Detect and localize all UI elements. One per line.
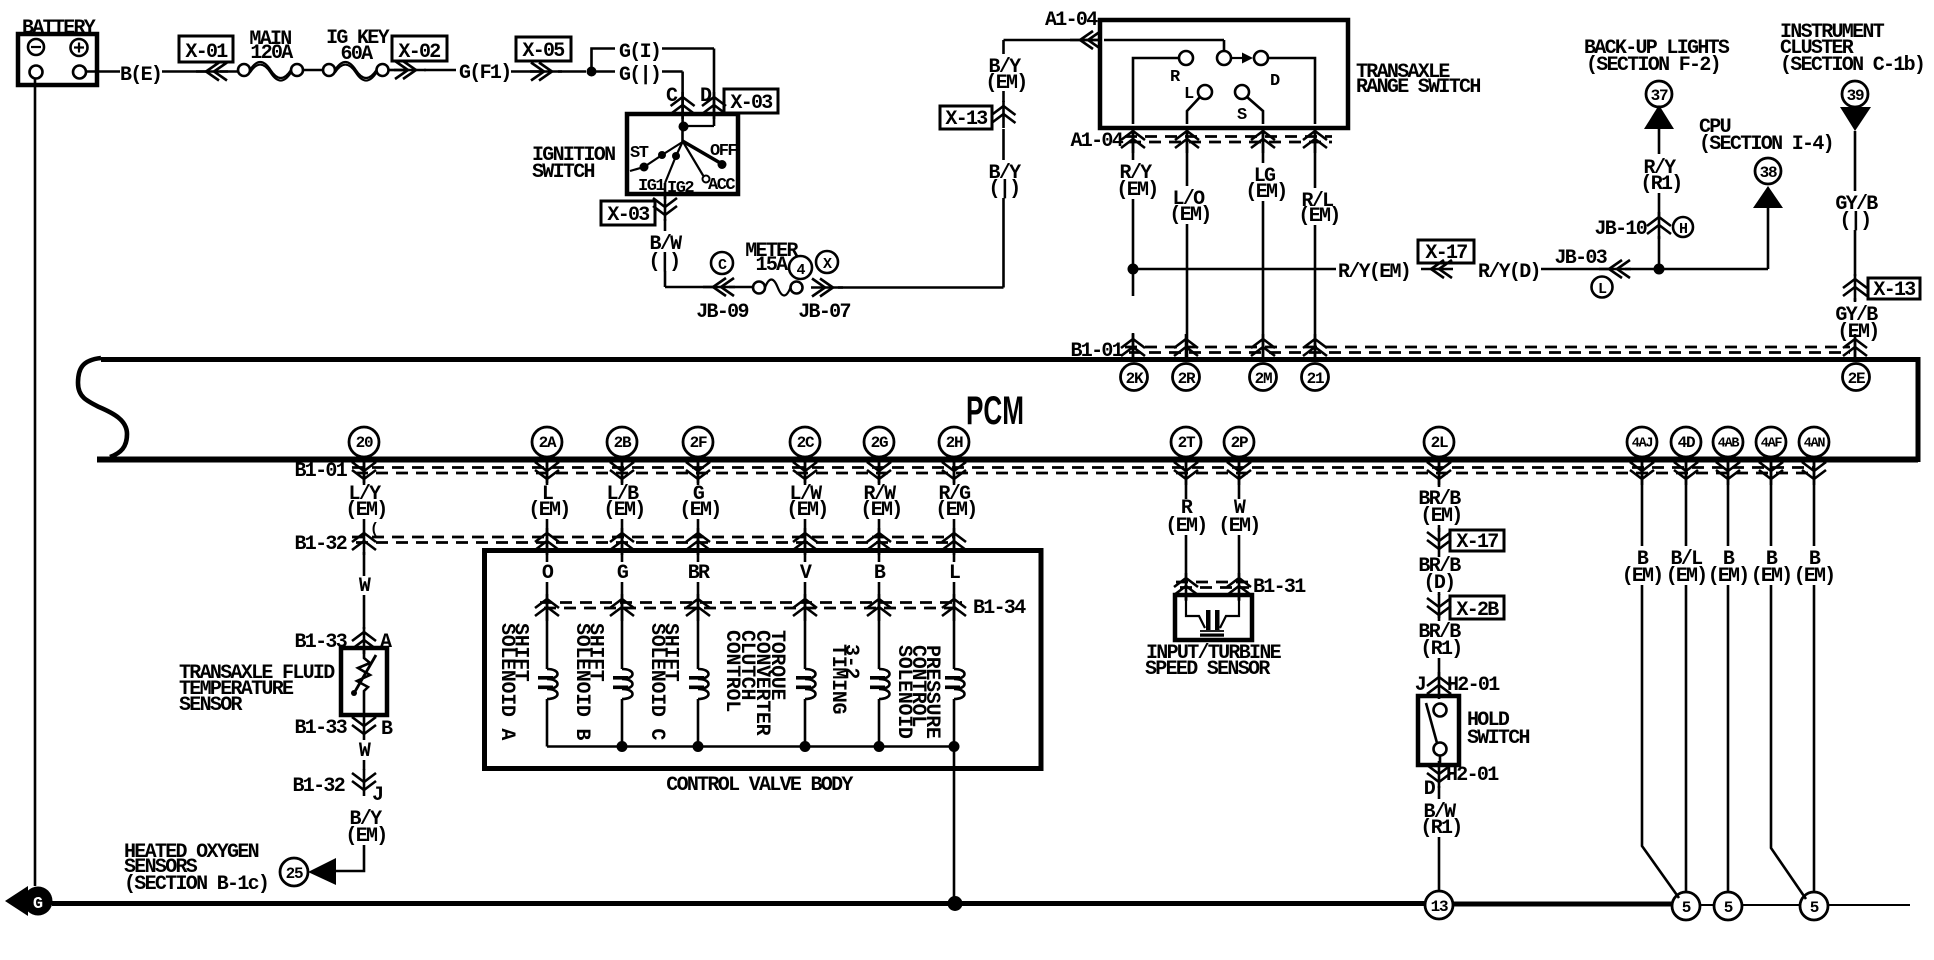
svg-text:(EM): (EM) [1420, 505, 1461, 528]
pcm terminal 2L [1424, 427, 1454, 457]
svg-text:(EM): (EM) [1245, 181, 1286, 204]
svg-text:(EM): (EM) [1708, 565, 1748, 588]
svg-text:X-01: X-01 [185, 41, 228, 64]
svg-text:4AF: 4AF [1761, 437, 1783, 452]
junction block JB-07 [816, 251, 838, 273]
svg-text:21: 21 [1307, 370, 1324, 388]
svg-text:X-03: X-03 [730, 92, 772, 115]
svg-text:(SECTION I-4): (SECTION I-4) [1699, 133, 1833, 156]
svg-text:38: 38 [1760, 164, 1777, 182]
svg-text:5: 5 [1810, 899, 1819, 917]
svg-text:(SECTION C-1b): (SECTION C-1b) [1780, 54, 1924, 77]
wire G(F1) [424, 69, 456, 72]
wire between fuses [303, 69, 323, 72]
svg-text:JB-03: JB-03 [1554, 247, 1606, 270]
svg-text:(EM): (EM) [1622, 565, 1662, 588]
svg-text:(|): (|) [989, 178, 1020, 201]
svg-text:(: ( [370, 521, 379, 538]
svg-text:R/Y(D): R/Y(D) [1478, 261, 1540, 284]
wire R/Y (R1) riser [1658, 129, 1661, 154]
connector X-17 lower [1438, 528, 1441, 555]
ignition switch wiper contacts [662, 142, 683, 155]
wire B (EM) ground 1 [1641, 483, 1644, 546]
junction block JB-09 [711, 252, 733, 274]
pcm terminal 2R [1173, 364, 1200, 391]
svg-text:A1-04: A1-04 [1070, 130, 1123, 153]
svg-text:(EM): (EM) [345, 499, 386, 522]
pcm terminal 2P [1224, 427, 1254, 457]
svg-text:B1-01: B1-01 [294, 460, 347, 483]
solenoid coil 4 [805, 669, 816, 699]
wire R/Y (EM) horizontal [1138, 268, 1336, 271]
svg-text:IG1: IG1 [638, 177, 665, 196]
control valve body [485, 551, 1042, 769]
svg-text:D: D [1424, 778, 1436, 801]
pcm terminal 4D [1671, 427, 1701, 457]
svg-text:L: L [1598, 281, 1607, 298]
svg-text:IG2: IG2 [667, 179, 694, 198]
svg-text:X-13: X-13 [945, 108, 987, 131]
wire G(I) upper [592, 49, 616, 69]
svg-text:W: W [359, 740, 371, 763]
pcm terminal 20 [349, 427, 379, 457]
svg-text:H: H [1679, 221, 1687, 238]
connector X-03 lower [601, 201, 655, 225]
pcm terminal 2E [1843, 364, 1870, 391]
connector X-2B [1438, 594, 1441, 621]
pcm terminal 4AB [1713, 427, 1743, 457]
solenoid coil 1 [547, 669, 558, 699]
svg-text:B: B [874, 562, 886, 585]
svg-text:(SECTION B-1c): (SECTION B-1c) [124, 873, 268, 896]
ground junction node [948, 896, 963, 911]
svg-text:(EM): (EM) [1116, 179, 1157, 202]
wire B (EM) ground 3 [1727, 483, 1730, 546]
pcm terminal 2K [1121, 364, 1148, 391]
wire G(I) lower [596, 70, 615, 73]
svg-text:SOLENOID: SOLENOID [892, 645, 915, 739]
svg-text:2M: 2M [1255, 370, 1272, 388]
svg-text:L: L [949, 562, 960, 585]
svg-text:(R1): (R1) [1640, 173, 1681, 196]
svg-text:RANGE SWITCH: RANGE SWITCH [1356, 76, 1480, 99]
svg-text:(EM): (EM) [1165, 515, 1206, 538]
svg-text:B1-34: B1-34 [973, 597, 1026, 620]
svg-text:D: D [1270, 72, 1280, 91]
svg-text:(EM): (EM) [1218, 515, 1259, 538]
solenoid coil 5 [879, 669, 890, 699]
ground wire runs [1642, 585, 1679, 898]
svg-text:W: W [359, 575, 371, 598]
svg-text:B1-32: B1-32 [294, 533, 346, 556]
wire L to ground [953, 747, 956, 900]
svg-text:B1-31: B1-31 [1253, 576, 1306, 599]
svg-text:S: S [1237, 106, 1247, 125]
svg-text:SOLENOID B: SOLENOID B [570, 623, 593, 740]
wire to transaxle range switch [1004, 39, 1101, 42]
svg-text:4D: 4D [1678, 434, 1695, 452]
svg-text:2C: 2C [797, 434, 815, 452]
range switch terminal wires [1133, 58, 1179, 124]
svg-text:13: 13 [1431, 898, 1448, 916]
svg-text:(EM): (EM) [786, 499, 827, 522]
svg-text:(EM): (EM) [1751, 565, 1791, 588]
svg-text:JB-09: JB-09 [696, 301, 748, 324]
svg-text:JB-07: JB-07 [798, 301, 850, 324]
svg-text:2K: 2K [1126, 370, 1144, 388]
svg-text:37: 37 [1651, 87, 1668, 105]
svg-text:B1-32: B1-32 [292, 775, 344, 798]
svg-text:39: 39 [1847, 87, 1864, 105]
svg-text:(|): (|) [649, 251, 680, 274]
svg-text:2H: 2H [946, 434, 963, 452]
wire LG (EM) [1262, 128, 1265, 163]
solenoid coil 3 [698, 669, 709, 699]
svg-text:CONTROL: CONTROL [720, 630, 743, 712]
svg-text:O: O [542, 562, 554, 585]
svg-text:(R1): (R1) [1420, 638, 1461, 661]
svg-text:G(|): G(|) [619, 64, 660, 87]
svg-text:G(I): G(I) [619, 41, 660, 64]
svg-text:4AN: 4AN [1804, 437, 1826, 452]
pcm [101, 357, 1918, 362]
svg-text:CONTROL VALVE BODY: CONTROL VALVE BODY [666, 774, 853, 797]
svg-text:G: G [33, 895, 43, 914]
wire B (EM) ground 5 [1813, 483, 1816, 546]
svg-text:G: G [617, 562, 629, 585]
svg-text:X-05: X-05 [522, 40, 564, 63]
svg-text:PCM: PCM [966, 389, 1024, 433]
svg-text:H2-01: H2-01 [1447, 674, 1500, 697]
svg-text:(EM): (EM) [1169, 204, 1210, 227]
pcm terminal 2A [532, 427, 562, 457]
svg-text:2E: 2E [1848, 370, 1865, 388]
svg-text:V: V [800, 562, 812, 585]
svg-text:2R: 2R [1178, 370, 1196, 388]
pcm terminal 4AJ [1627, 427, 1657, 457]
pcm terminal 2G [864, 427, 894, 457]
wire GY/B (I) [1854, 131, 1857, 191]
svg-text:(EM): (EM) [985, 72, 1026, 95]
valve body bus [547, 745, 954, 748]
svg-text:H2-01: H2-01 [1446, 764, 1499, 787]
wire ignition to X-03 [664, 183, 667, 199]
ground terminal 13 [1425, 891, 1453, 919]
connector X-13 left [940, 106, 992, 129]
svg-text:X-17: X-17 [1425, 242, 1467, 265]
svg-text:SOLENOID C: SOLENOID C [645, 623, 668, 740]
svg-text:(R1): (R1) [1420, 817, 1461, 840]
svg-text:X-2B: X-2B [1456, 599, 1499, 622]
hold switch [1418, 696, 1459, 765]
connector B1-31 [1176, 581, 1249, 584]
svg-text:B: B [381, 718, 393, 741]
pcm terminal 21 [1302, 364, 1329, 391]
solenoid coil 6 [954, 669, 965, 699]
wire B/L (EM) ground 2 [1685, 483, 1688, 546]
svg-text:2F: 2F [690, 434, 707, 452]
wire meter fuse to B/Y riser [838, 286, 1004, 289]
wire L/O (EM) [1186, 128, 1189, 186]
ground symbol G [5, 886, 28, 916]
svg-text:(EM): (EM) [1666, 565, 1706, 588]
svg-text:BATTERY: BATTERY [22, 17, 96, 40]
svg-text:L: L [1184, 85, 1194, 104]
svg-text:2B: 2B [614, 434, 632, 452]
connector X-17 top [1418, 240, 1474, 263]
svg-text:X-02: X-02 [398, 41, 440, 64]
solenoid coil 2 [622, 669, 633, 699]
svg-text:(EM): (EM) [603, 499, 644, 522]
svg-text:C: C [718, 257, 727, 274]
svg-text:(EM): (EM) [679, 499, 720, 522]
node G junction [587, 67, 597, 77]
wire R/Y (EM) from range switch [1132, 128, 1135, 160]
connector X-01 [179, 36, 233, 62]
svg-text:(EM): (EM) [528, 499, 569, 522]
svg-text:(EM): (EM) [345, 825, 386, 848]
pcm terminal 2C [790, 427, 820, 457]
svg-text:J: J [1415, 674, 1425, 697]
svg-text:5: 5 [1724, 899, 1733, 917]
svg-text:2A: 2A [539, 434, 557, 452]
svg-text:15A: 15A [756, 254, 789, 277]
svg-text:SENSOR: SENSOR [179, 694, 243, 717]
svg-text:G(F1): G(F1) [459, 62, 511, 85]
svg-text:X-17: X-17 [1456, 531, 1498, 554]
pcm terminal 2H [939, 427, 969, 457]
svg-text:4: 4 [796, 262, 805, 279]
range switch internals [1104, 39, 1224, 42]
pcm terminal 4AN [1799, 427, 1829, 457]
transaxle range switch [1100, 20, 1348, 128]
svg-text:(|): (|) [1840, 210, 1871, 233]
ignition switch internal node [679, 122, 689, 132]
input/turbine speed sensor [1185, 596, 1188, 601]
svg-text:R/Y(EM): R/Y(EM) [1338, 261, 1410, 284]
range switch wiper arrow [1231, 57, 1242, 59]
node R/Y to back-up lights [1654, 264, 1665, 275]
wire B(E) [86, 70, 120, 73]
svg-text:ACC: ACC [708, 176, 735, 195]
svg-text:25: 25 [286, 865, 303, 883]
svg-text:ST: ST [630, 144, 649, 163]
svg-text:SWITCH: SWITCH [1467, 727, 1530, 750]
wire riser to CPU [1767, 208, 1770, 269]
svg-text:B1-33: B1-33 [294, 717, 346, 740]
svg-text:B1-01: B1-01 [1070, 340, 1123, 363]
connector X-02 [388, 69, 404, 72]
svg-text:(D): (D) [1424, 572, 1455, 595]
svg-text:4AB: 4AB [1718, 437, 1740, 452]
svg-text:X-03: X-03 [607, 204, 649, 227]
connector H2-01 pin D [1438, 761, 1441, 788]
svg-text:TIMING: TIMING [826, 644, 849, 715]
svg-text:BR: BR [688, 562, 710, 585]
svg-text:OFF: OFF [710, 142, 737, 161]
node R/Y junction [1128, 264, 1139, 275]
svg-text:2G: 2G [871, 434, 888, 452]
pcm terminal 2F [683, 427, 713, 457]
connector X-05 [516, 37, 571, 61]
svg-text:2T: 2T [1178, 434, 1196, 452]
wire B (EM) ground 4 [1770, 483, 1773, 546]
pcm terminal 2M [1250, 364, 1277, 391]
svg-text:A1-04: A1-04 [1045, 9, 1098, 32]
ground bus line [52, 901, 1425, 906]
svg-text:2L: 2L [1431, 434, 1448, 452]
svg-text:20: 20 [356, 434, 373, 452]
ground terminal 5 second [1714, 892, 1742, 920]
svg-text:5: 5 [1682, 899, 1691, 917]
svg-text:2P: 2P [1231, 434, 1248, 452]
svg-text:120A: 120A [250, 42, 293, 65]
pcm terminal 2T [1171, 427, 1201, 457]
svg-text:X: X [823, 256, 832, 273]
svg-text:(EM): (EM) [860, 499, 901, 522]
connector X-03 upper [724, 89, 778, 113]
svg-text:J: J [372, 784, 382, 807]
svg-text:SWITCH: SWITCH [532, 161, 595, 184]
svg-text:SOLENOID A: SOLENOID A [495, 623, 518, 740]
wire battery negative to ground [34, 79, 37, 886]
svg-text:JB-10: JB-10 [1594, 218, 1646, 241]
connector X-13 right [1854, 274, 1857, 301]
wire ignition to meter fuse [665, 286, 713, 289]
svg-text:(EM): (EM) [1794, 565, 1834, 588]
ground terminal 5 third [1800, 892, 1828, 920]
pcm terminal 2B [607, 427, 637, 457]
ground terminal 5 first [1672, 892, 1700, 920]
svg-text:X-13: X-13 [1873, 279, 1915, 302]
svg-text:B(E): B(E) [120, 64, 161, 87]
svg-text:SPEED SENSOR: SPEED SENSOR [1145, 658, 1270, 681]
svg-text:(SECTION F-2): (SECTION F-2) [1586, 54, 1720, 77]
svg-text:4AJ: 4AJ [1632, 437, 1653, 452]
svg-text:(EM): (EM) [1298, 205, 1339, 228]
svg-text:(EM): (EM) [935, 499, 976, 522]
pcm terminal 4AF [1756, 427, 1786, 457]
wire R/L (EM) [1314, 128, 1317, 188]
